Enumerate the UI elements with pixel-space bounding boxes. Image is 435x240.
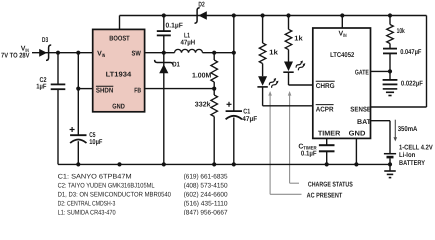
svg-text:GND: GND: [112, 103, 125, 110]
svg-text:D2: D2: [198, 1, 204, 8]
svg-text:LTC4052: LTC4052: [330, 52, 354, 59]
svg-text:(602) 244-6600: (602) 244-6600: [184, 192, 228, 199]
svg-text:(516) 435-1110: (516) 435-1110: [184, 201, 228, 208]
svg-text:(619) 661-6835: (619) 661-6835: [184, 174, 228, 181]
svg-text:Li-Ion: Li-Ion: [399, 151, 415, 159]
svg-text:AC PRESENT: AC PRESENT: [307, 193, 343, 200]
svg-text:D1: D1: [172, 62, 180, 69]
svg-text:IN: IN: [102, 53, 106, 59]
svg-text:0.1µF: 0.1µF: [301, 151, 317, 158]
svg-text:D2: CENTRAL CMDSH-3: D2: CENTRAL CMDSH-3: [58, 201, 116, 208]
svg-text:(847) 956-0667: (847) 956-0667: [184, 210, 228, 216]
svg-text:7V TO 28V: 7V TO 28V: [1, 53, 30, 60]
svg-text:C2: TAIYO YUDEN GMK316BJ105ML: C2: TAIYO YUDEN GMK316BJ105ML: [58, 183, 155, 190]
svg-text:L1: SUMIDA CR43-470: L1: SUMIDA CR43-470: [58, 210, 116, 216]
svg-text:0.1µF: 0.1µF: [166, 22, 184, 29]
svg-text:1-CELL 4.2V: 1-CELL 4.2V: [399, 145, 433, 152]
svg-text:SENSE: SENSE: [350, 106, 371, 113]
svg-text:10µF: 10µF: [89, 139, 103, 146]
svg-text:CHRG: CHRG: [316, 83, 335, 90]
svg-text:0.047µF: 0.047µF: [400, 49, 422, 56]
svg-text:SHDN: SHDN: [96, 88, 113, 95]
svg-text:GATE: GATE: [355, 69, 369, 76]
svg-text:1µF: 1µF: [36, 84, 47, 91]
svg-text:ACPR: ACPR: [316, 106, 334, 113]
svg-text:CHARGE STATUS: CHARGE STATUS: [308, 181, 353, 188]
svg-text:SW: SW: [132, 50, 142, 57]
svg-text:350mA: 350mA: [398, 126, 418, 133]
svg-text:C1: C1: [243, 108, 250, 115]
svg-text:1k: 1k: [269, 49, 278, 57]
svg-text:332k: 332k: [195, 100, 211, 108]
svg-text:(408) 573-4150: (408) 573-4150: [184, 183, 228, 190]
svg-text:BATTERY: BATTERY: [399, 160, 425, 167]
svg-text:47µF: 47µF: [242, 116, 258, 123]
svg-text:D3: D3: [42, 37, 48, 44]
svg-text:FB: FB: [134, 87, 141, 94]
svg-text:1.00M: 1.00M: [192, 72, 211, 79]
svg-text:LT1934: LT1934: [106, 71, 132, 78]
svg-text:TIMER: TIMER: [318, 130, 340, 137]
svg-text:BAT: BAT: [357, 119, 372, 126]
svg-text:BOOST: BOOST: [109, 36, 130, 43]
svg-text:0.022µF: 0.022µF: [401, 80, 424, 87]
svg-text:D1, D3: ON SEMICONDUCTOR MBR05: D1, D3: ON SEMICONDUCTOR MBR0540: [58, 192, 172, 199]
svg-text:C1: SANYO 6TPB47M: C1: SANYO 6TPB47M: [58, 174, 132, 181]
svg-text:10k: 10k: [397, 27, 405, 35]
svg-text:1k: 1k: [294, 35, 303, 43]
svg-text:47µH: 47µH: [181, 40, 196, 47]
svg-text:IN: IN: [343, 33, 347, 39]
svg-text:GND: GND: [349, 130, 366, 137]
